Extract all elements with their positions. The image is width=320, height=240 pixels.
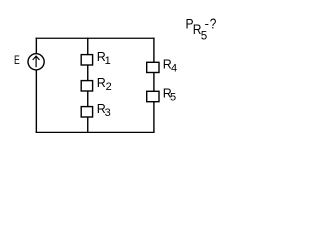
svg-text:R: R [97, 76, 106, 90]
wire top rail [36, 37, 155, 39]
svg-text:2: 2 [106, 81, 112, 93]
wire left branch upper segment [35, 38, 37, 54]
svg-text:1: 1 [105, 55, 111, 67]
wire right branch segment 2 [153, 72, 155, 91]
svg-text:3: 3 [105, 107, 111, 119]
svg-text:E: E [14, 55, 20, 68]
label R1 [97, 50, 111, 67]
wire right branch segment 1 [153, 38, 155, 63]
wire middle branch segment 1 [87, 38, 89, 55]
source E [28, 54, 44, 70]
wire right branch segment 3 [153, 102, 155, 133]
label R4 [163, 58, 177, 75]
label question P R5 [186, 15, 217, 42]
resistor R3 [81, 107, 92, 117]
svg-text:5: 5 [170, 92, 176, 104]
svg-text:5: 5 [201, 29, 207, 42]
wire left branch lower segment [35, 70, 37, 133]
resistor R5 [147, 91, 159, 101]
label R5 [163, 87, 176, 104]
resistor R2 [81, 81, 92, 91]
label R2 [97, 76, 112, 93]
label E [14, 55, 20, 68]
svg-text:?: ? [210, 15, 217, 32]
resistor R4 [147, 62, 159, 72]
label R3 [97, 102, 111, 119]
wire middle branch segment 3 [87, 91, 89, 107]
wire middle branch segment 4 [87, 117, 89, 133]
resistor R1 [81, 55, 92, 65]
wire bottom rail [36, 131, 155, 133]
svg-text:-: - [205, 16, 209, 31]
svg-text:4: 4 [171, 63, 177, 75]
wire middle branch segment 2 [87, 65, 89, 81]
